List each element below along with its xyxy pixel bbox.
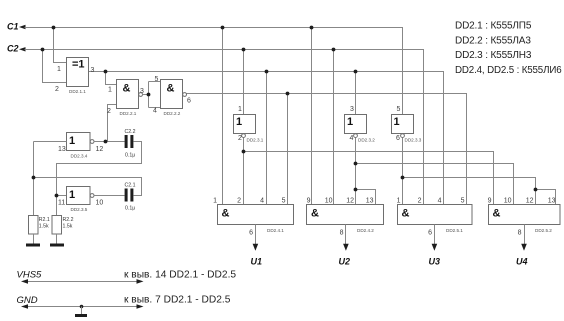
arrowhead U4 xyxy=(521,244,527,251)
svg-text:U2: U2 xyxy=(339,256,351,266)
svg-text:5: 5 xyxy=(155,76,159,83)
wire C1 to U1 pin1 xyxy=(222,28,224,205)
wire C1 bus xyxy=(25,28,403,115)
gate AND DD2.4.1 xyxy=(218,205,294,225)
junction inv-node3 xyxy=(354,162,358,166)
svg-text:13: 13 xyxy=(366,198,374,205)
junction GND-ground xyxy=(80,305,84,309)
capacitor C2.1 xyxy=(125,189,134,202)
arrowhead U1 xyxy=(253,244,259,251)
wire XOR pin2 from C2 xyxy=(43,50,67,83)
svg-text:к выв. 14 DD2.1 - DD2.5: к выв. 14 DD2.1 - DD2.5 xyxy=(124,270,236,281)
inverter DD2.3.2 xyxy=(345,115,367,138)
svg-text:DD2.2 : К555ЛА3: DD2.2 : К555ЛА3 xyxy=(455,35,531,46)
svg-text:9: 9 xyxy=(488,198,492,205)
wire U3 output xyxy=(434,225,436,245)
op XOR gate DD2.1.1 xyxy=(67,58,89,87)
node C2 arrowhead xyxy=(19,47,26,51)
svg-text:1: 1 xyxy=(108,87,112,94)
svg-text:2: 2 xyxy=(237,198,241,205)
svg-text:2: 2 xyxy=(418,198,422,205)
svg-text:1: 1 xyxy=(57,66,61,73)
wire node6 to U1 pin5 xyxy=(287,94,289,205)
wire NAND1 pin1 from node3 xyxy=(106,72,117,85)
wire C2 to DD2.3.1 input xyxy=(243,50,245,115)
svg-text:3: 3 xyxy=(350,106,354,113)
junction invC2 xyxy=(242,150,246,154)
svg-text:&: & xyxy=(222,208,230,220)
junction node3-U1.4 xyxy=(265,70,269,74)
wire osc left vertical to R2.1 xyxy=(33,142,35,216)
wire C2 to U2 pin10 xyxy=(333,50,335,205)
svg-text:1: 1 xyxy=(213,198,217,205)
wire GND ground stub xyxy=(81,307,83,315)
wire XOR pin1 from C1 xyxy=(54,28,67,63)
svg-text:C1: C1 xyxy=(7,22,19,32)
wire U1 output xyxy=(255,225,257,245)
svg-text:10: 10 xyxy=(325,198,333,205)
svg-text:0.1μ: 0.1μ xyxy=(125,153,135,159)
gate NAND DD2.2.2 xyxy=(161,80,187,109)
wire U4 pin13 tie loop xyxy=(536,190,556,205)
svg-text:&: & xyxy=(402,208,410,220)
junction osc feedback xyxy=(32,176,36,180)
junction C1-U1.1 xyxy=(221,26,225,30)
junction node6-U1.5 xyxy=(286,92,290,96)
svg-text:5: 5 xyxy=(461,198,465,205)
junction U2 pin12/13 tie xyxy=(354,188,358,192)
svg-text:C2.2: C2.2 xyxy=(125,129,136,135)
svg-text:13: 13 xyxy=(548,198,556,205)
svg-text:DD2.4.1: DD2.4.1 xyxy=(267,228,284,233)
wire node3 to U1 pin4 xyxy=(266,72,268,205)
svg-text:3: 3 xyxy=(91,67,95,74)
svg-text:1: 1 xyxy=(397,198,401,205)
capacitor C2.2 xyxy=(125,135,134,148)
svg-text:&: & xyxy=(493,208,501,220)
svg-text:DD2.2.2: DD2.2.2 xyxy=(164,111,181,116)
svg-text:C2: C2 xyxy=(7,44,19,54)
svg-text:&: & xyxy=(311,208,319,220)
svg-text:9: 9 xyxy=(307,198,311,205)
svg-text:4: 4 xyxy=(153,108,157,115)
wire DD2.3.5 input stub xyxy=(57,195,67,197)
svg-text:1: 1 xyxy=(69,135,75,147)
node C1 arrowhead xyxy=(19,25,26,29)
arrowhead GND left xyxy=(21,304,28,309)
svg-text:3: 3 xyxy=(140,88,144,95)
svg-text:1: 1 xyxy=(394,116,400,128)
arrowhead VHS5 right xyxy=(137,279,144,284)
svg-text:к выв. 7 DD2.1 - DD2.5: к выв. 7 DD2.1 - DD2.5 xyxy=(124,295,231,306)
svg-text:6: 6 xyxy=(249,230,253,237)
gate AND DD2.4.2 xyxy=(307,205,384,225)
wire R2.1 to ground xyxy=(33,234,35,244)
wire invC1 line to U4 pin12 xyxy=(403,178,536,205)
wire GND span xyxy=(26,306,139,308)
svg-text:R2.2: R2.2 xyxy=(63,217,74,223)
wire C2.1 feedback to DD2.3.4 input xyxy=(34,178,142,196)
ground R2.1 xyxy=(26,244,40,247)
junction DD2.3.4 out xyxy=(104,140,108,144)
wire NAND1 pin2 from oscillator xyxy=(108,105,117,142)
svg-text:1: 1 xyxy=(236,116,242,128)
resistor R2.2 xyxy=(52,216,62,235)
wire node3 to DD2.3.2 input xyxy=(355,72,357,115)
svg-text:GND: GND xyxy=(17,295,38,306)
wire DD2.3.4 input xyxy=(34,141,67,143)
svg-text:4: 4 xyxy=(438,198,442,205)
junction C2-DD2.3.1 xyxy=(242,48,246,52)
wire C2 bus xyxy=(25,50,424,205)
svg-text:DD2.5.2: DD2.5.2 xyxy=(535,228,552,233)
svg-text:DD2.1.1: DD2.1.1 xyxy=(69,89,86,94)
svg-text:13: 13 xyxy=(58,146,66,153)
svg-text:1.5k: 1.5k xyxy=(63,224,73,230)
arrowhead VHS5 left xyxy=(21,279,28,284)
svg-text:12: 12 xyxy=(526,198,534,205)
wire node6 bus xyxy=(186,94,466,205)
junction C2-XOR xyxy=(41,48,45,52)
svg-text:VHS5: VHS5 xyxy=(17,269,43,280)
arrowhead U3 xyxy=(432,244,438,251)
wire U2 pin13 tie loop xyxy=(356,190,376,205)
inverter DD2.3.3 xyxy=(392,115,414,138)
svg-text:1: 1 xyxy=(347,116,353,128)
svg-text:12: 12 xyxy=(346,198,354,205)
svg-text:1: 1 xyxy=(69,189,75,201)
svg-text:U1: U1 xyxy=(251,256,263,266)
svg-text:DD2.3.2: DD2.3.2 xyxy=(358,138,375,143)
svg-text:6: 6 xyxy=(428,230,432,237)
wire U2 output xyxy=(345,225,347,245)
oscillator inverter DD2.3.4 xyxy=(67,133,95,151)
svg-text:6: 6 xyxy=(187,98,191,105)
wire DD2.3.1 out to U1 pin2 xyxy=(243,138,245,205)
svg-text:11: 11 xyxy=(58,200,65,207)
svg-text:4: 4 xyxy=(260,198,264,205)
svg-text:DD2.3.4: DD2.3.4 xyxy=(71,154,88,159)
junction node3-NAND1 xyxy=(104,70,108,74)
svg-text:10: 10 xyxy=(504,198,512,205)
wire NAND1 out to NAND2 inputs xyxy=(142,82,160,108)
junction NAND1 out xyxy=(147,93,151,97)
svg-text:2: 2 xyxy=(55,86,59,93)
svg-text:DD2.2.1: DD2.2.1 xyxy=(120,111,137,116)
junction DD2.3.5 input xyxy=(55,194,59,198)
svg-text:DD2.1 : К555ЛП5: DD2.1 : К555ЛП5 xyxy=(455,21,532,32)
wire DD2.3.5 out to C2.1 xyxy=(94,195,125,197)
svg-text:2: 2 xyxy=(107,108,111,115)
svg-text:&: & xyxy=(167,83,175,95)
wire VHS5 span xyxy=(26,281,139,283)
wire C2.2 to DD2.3.5 input and R2.2 xyxy=(57,142,142,216)
ground GND symbol xyxy=(75,314,87,317)
wire R2.2 to ground xyxy=(56,234,58,244)
svg-text:&: & xyxy=(123,83,131,95)
junction node3-DD2.3.2 xyxy=(354,70,358,74)
svg-text:DD2.4.2: DD2.4.2 xyxy=(357,228,374,233)
ground R2.2 xyxy=(50,244,64,247)
svg-text:DD2.5.1: DD2.5.1 xyxy=(446,228,463,233)
svg-text:5: 5 xyxy=(282,198,286,205)
oscillator inverter DD2.3.5 xyxy=(67,187,95,205)
svg-text:6: 6 xyxy=(396,135,400,142)
svg-text:DD2.3.1: DD2.3.1 xyxy=(247,138,264,143)
svg-text:U3: U3 xyxy=(429,256,441,266)
svg-text:U4: U4 xyxy=(516,256,528,266)
svg-text:1.5k: 1.5k xyxy=(39,224,49,230)
svg-text:0.1μ: 0.1μ xyxy=(125,206,135,212)
svg-text:1: 1 xyxy=(238,106,242,113)
arrowhead GND right xyxy=(137,304,144,309)
junction U4 pin12/13 tie xyxy=(534,188,538,192)
wire DD2.3.4 out to C2.2 xyxy=(94,141,125,143)
svg-text:8: 8 xyxy=(340,230,344,237)
svg-text:C2.1: C2.1 xyxy=(125,183,136,189)
wire invC2 line to U4 pin9 xyxy=(244,152,494,205)
wire C1 to U2 pin9 xyxy=(311,28,313,205)
gate AND DD2.5.2 xyxy=(489,205,561,225)
svg-text:8: 8 xyxy=(518,230,522,237)
svg-text:DD2.3.3: DD2.3.3 xyxy=(405,138,422,143)
junction C1-U2.9 xyxy=(310,26,314,30)
wire DD2.3.3 out to U3 pin1 xyxy=(402,138,404,205)
arrowhead U2 xyxy=(343,244,349,251)
svg-text:DD2.3 : К555ЛН3: DD2.3 : К555ЛН3 xyxy=(455,50,532,61)
svg-text:=1: =1 xyxy=(72,59,85,71)
svg-text:5: 5 xyxy=(397,106,401,113)
junction invC1 xyxy=(401,176,405,180)
gate NAND DD2.2.1 xyxy=(117,80,143,109)
svg-text:DD2.3.5: DD2.3.5 xyxy=(71,207,88,212)
inverter DD2.3.1 xyxy=(234,115,256,138)
gate AND DD2.5.1 xyxy=(398,205,473,225)
svg-text:2: 2 xyxy=(238,135,242,142)
wire DD2.3.2 out to U2 pin12 xyxy=(355,138,357,205)
svg-text:4: 4 xyxy=(350,135,354,142)
wire inv-node3 line to U4 pin10 xyxy=(356,164,514,205)
junction C2-U2.10 xyxy=(332,48,336,52)
svg-text:DD2.4, DD2.5 : К555ЛИ6: DD2.4, DD2.5 : К555ЛИ6 xyxy=(455,65,562,76)
wire node3 bus xyxy=(89,72,444,205)
junction C1-XOR xyxy=(52,26,56,30)
resistor R2.1 xyxy=(29,216,39,235)
svg-text:R2.1: R2.1 xyxy=(39,217,50,223)
svg-text:12: 12 xyxy=(96,146,104,153)
wire U4 output xyxy=(524,225,526,245)
svg-text:10: 10 xyxy=(96,200,104,207)
